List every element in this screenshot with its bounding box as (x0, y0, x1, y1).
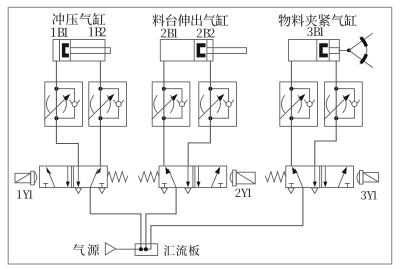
label 3Y1 (361, 191, 377, 200)
wire cylinder 3A left port through 3V1 to 3Y1 port 2 (290, 61, 292, 166)
valve 2Y1 (5/2) solenoid-position flows (197, 166, 224, 188)
flow control valve 1V2 throttle (88, 94, 114, 120)
title 冲压气缸 (52, 13, 105, 25)
cylinder 1A (冲压) body (53, 40, 105, 62)
valve 2Y1 (5/2) body (159, 166, 227, 188)
manifold block 汇流板 (135, 244, 158, 256)
label 1B1 (51, 28, 68, 37)
valve 3Y1 (5/2) solenoid-position flows (323, 166, 350, 188)
wire cylinder 3A right port to 3V2 and 3Y1 port 4 (315, 61, 336, 166)
flow control valve 3V1 ports (289, 87, 293, 121)
air source symbol 气源 (73, 243, 116, 256)
wire 2Y1 port 1 to manifold (146, 188, 176, 250)
solenoid 3Y1 (valve3) (357, 171, 379, 185)
valve 3Y1 (5/2) return spring (265, 172, 286, 182)
label 2Y1 (235, 189, 251, 197)
cylinder 2A (料台) body (160, 40, 213, 62)
label 汇流板 (164, 245, 200, 256)
valve 3Y1 (5/2) spring-position flows (289, 166, 317, 188)
flow control valve 2V2 check-valve branch (210, 89, 233, 119)
wire cylinder 1A left port to valve 1V1 and 1Y1 port 4 (56, 61, 78, 166)
cylinder 1A (冲压) piston (62, 43, 69, 57)
label 1B2 (89, 27, 106, 36)
flow control valve 2V2 ports (208, 87, 212, 121)
valve 1Y1 (5/2) exhaust silencers (75, 188, 105, 193)
flow control valve 1V1 throttle (44, 94, 70, 120)
flow control valve 2V1 check-valve branch (164, 89, 187, 119)
flow control valve 3V2 enclosure (325, 82, 363, 126)
wire cylinder 2A left port through 2V1 to 2Y1 port 2 (163, 61, 165, 166)
title 料台伸出气缸 (152, 14, 228, 26)
valve 2Y1 (5/2) exhaust silencers (161, 188, 191, 193)
solenoid 2Y1 (valve2) (230, 170, 255, 186)
cylinder 3A (夹紧) rod (329, 48, 339, 54)
cylinder 3A (夹紧) body (289, 40, 340, 62)
flow control valve 2V1 throttle (152, 94, 178, 120)
flow control valve 2V2 enclosure (199, 82, 237, 126)
wire cylinder 1A right port through 1V2 to 1Y1 port 2 (99, 61, 101, 166)
flow control valve 1V2 check-valve branch (100, 89, 123, 119)
valve 1Y1 (5/2) return spring (107, 172, 128, 182)
flow control valve 1V1 enclosure (45, 82, 83, 126)
valve 2Y1 (5/2) return spring (138, 172, 159, 182)
label 2B1 (161, 29, 178, 38)
flow control valve 3V2 check-valve branch (336, 89, 359, 119)
flow control valve 3V2 ports (334, 87, 338, 121)
wire 1Y1 port 1 to manifold (90, 188, 141, 250)
title 物料夹紧气缸 (278, 14, 356, 26)
flow control valve 1V2 ports (98, 87, 102, 121)
cylinder 1A (冲压) rod (70, 48, 110, 54)
flow control valve 3V1 check-valve branch (291, 89, 314, 119)
flow control valve 2V2 throttle (198, 94, 224, 120)
label 1Y1 (17, 190, 32, 198)
valve 3Y1 (5/2) exhaust silencers (288, 188, 318, 193)
flow control valve 3V2 throttle (324, 94, 350, 120)
solenoid 1Y1 (valve1) (15, 171, 37, 185)
valve 2Y1 (5/2) spring-position flows (162, 166, 190, 188)
valve 1Y1 (5/2) solenoid-position flows (43, 166, 70, 188)
label 2B2 (197, 29, 215, 38)
flow control valve 1V1 ports (54, 87, 58, 121)
valve 1Y1 (5/2) body (40, 166, 108, 188)
flow control valve 3V1 enclosure (280, 82, 318, 126)
cylinder 2A (料台) rod (207, 48, 247, 54)
wire air source to manifold (116, 248, 151, 250)
clamp linkage on cylinder 3A (339, 33, 373, 67)
flow control valve 3V1 throttle (279, 94, 305, 120)
valve 1Y1 (5/2) spring-position flows (76, 166, 104, 188)
flow control valve 1V1 check-valve branch (56, 89, 79, 119)
wire cylinder 2A right port to 2V2 and 2Y1 port 4 (188, 61, 210, 166)
cylinder 3A (夹紧) piston (319, 43, 328, 57)
flow control valve 2V1 enclosure (152, 82, 190, 126)
label 3B1 (307, 27, 324, 36)
wire 3Y1 port 1 to manifold (151, 188, 303, 250)
flow control valve 2V1 ports (162, 87, 166, 121)
cylinder 2A (料台) piston (197, 43, 206, 57)
flow control valve 1V2 enclosure (89, 82, 127, 126)
valve 3Y1 (5/2) body (286, 166, 354, 188)
